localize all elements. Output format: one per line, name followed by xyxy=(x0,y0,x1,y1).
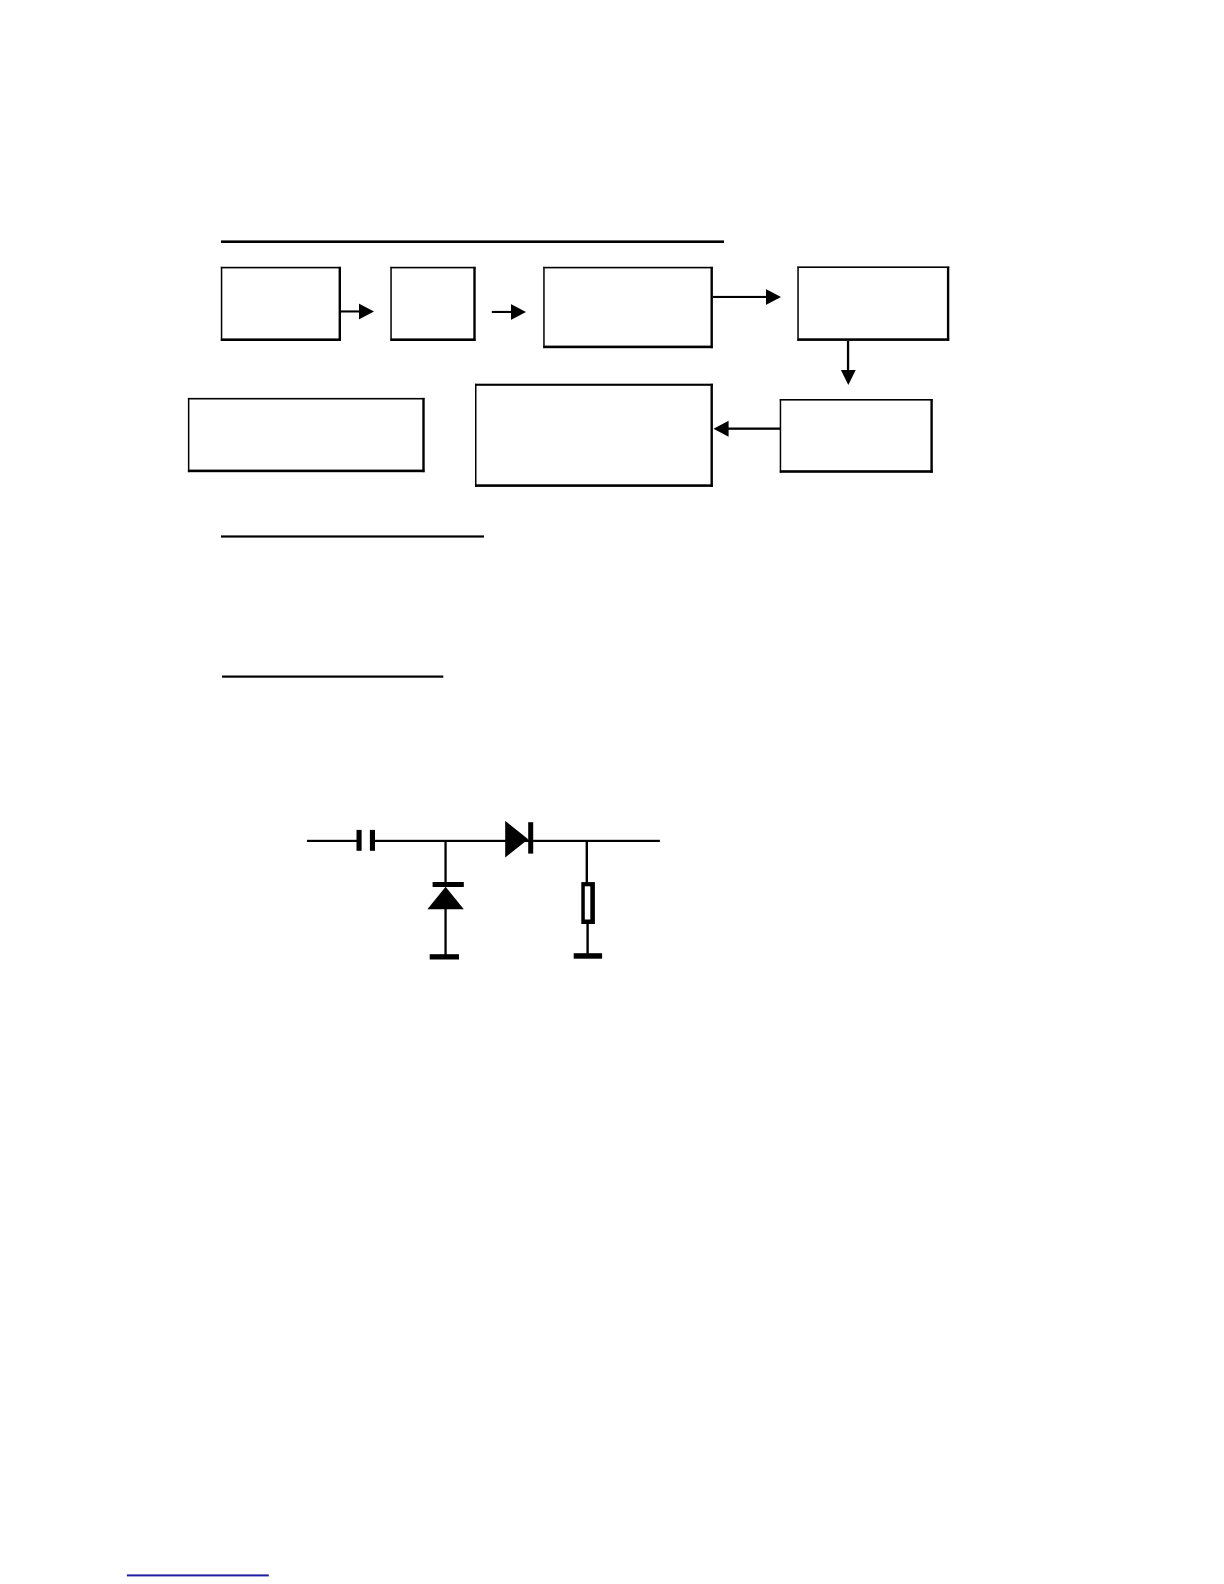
flow box 6 xyxy=(475,384,713,487)
diode D2 triangle xyxy=(427,887,463,909)
wire arrow down xyxy=(841,341,856,385)
diode D2 cathode bar xyxy=(433,882,464,887)
flow box 5 xyxy=(780,399,933,473)
heading underline (title rule) xyxy=(221,240,724,243)
capacitor C1 plate 1 xyxy=(357,830,362,851)
flow box 2 xyxy=(390,267,475,341)
flow box 3 xyxy=(543,267,713,348)
flow box 7 xyxy=(188,398,425,472)
flow box 4 xyxy=(797,266,949,341)
flow box 1 xyxy=(221,267,341,341)
node junction to shunt diode xyxy=(444,841,446,882)
wire arrow 2 xyxy=(492,304,526,320)
resistor R1 body xyxy=(581,882,595,924)
wire: input segment xyxy=(307,840,357,842)
wire arrow 1 xyxy=(341,304,374,320)
ground (left) xyxy=(430,954,459,959)
wire: D2 anode to ground xyxy=(444,909,446,955)
wire arrow 3 xyxy=(713,289,781,305)
wire: main horizontal net xyxy=(375,840,660,842)
node junction to load resistor xyxy=(586,841,588,883)
diode D1 cathode bar xyxy=(528,822,533,853)
section underline 3 xyxy=(222,676,443,678)
capacitor C1 plate 2 xyxy=(370,830,375,851)
wire: R1 to ground xyxy=(586,924,588,953)
wire arrow left xyxy=(714,421,781,437)
diode D1 triangle xyxy=(505,821,528,858)
ground (right) xyxy=(574,953,602,959)
hyperlink underline (footer) xyxy=(127,1574,269,1576)
section underline 2 xyxy=(221,535,484,537)
